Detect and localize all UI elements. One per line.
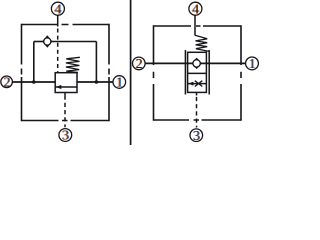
envelope right edge — [108, 24, 110, 122]
main wire port2 to valve — [12, 81, 55, 83]
check valve V1 ball — [44, 38, 51, 45]
svg-text:1: 1 — [116, 76, 123, 91]
envelope bottom edge (right) — [154, 119, 242, 121]
check valve V1 diamond — [43, 36, 52, 46]
drain stub wire (right) — [196, 92, 198, 95]
junction dot B — [95, 80, 99, 84]
port 2 circle (right) — [133, 57, 146, 70]
port 4 wire down to spring — [194, 15, 196, 35]
port 1 circle (left) — [113, 76, 126, 89]
relief flow path — [55, 86, 77, 88]
main wire diamond to port1 (right) — [201, 62, 246, 64]
relief flow arrowhead — [56, 85, 61, 89]
relief spring — [66, 57, 80, 72]
port 3 circle (right) — [190, 129, 203, 142]
svg-text:2: 2 — [136, 57, 143, 72]
main wire port2 to diamond (right) — [145, 62, 192, 64]
right cage rail — [208, 50, 210, 95]
main wire valve to port1 — [77, 81, 113, 83]
bypass riser left wire — [33, 42, 35, 83]
envelope right edge (right) — [240, 25, 242, 121]
envelope bottom edge — [22, 120, 110, 122]
bottom cell flow line — [188, 83, 207, 85]
port 3 circle (left) — [59, 129, 72, 142]
svg-text:3: 3 — [193, 129, 200, 144]
svg-text:4: 4 — [55, 2, 62, 17]
svg-text:3: 3 — [62, 129, 69, 144]
pilot line port4 to valve (dashed) — [57, 29, 59, 73]
divider line — [130, 0, 132, 145]
bypass top wire right — [52, 41, 97, 43]
port 1 circle (right) — [246, 57, 259, 70]
valve body (right) — [188, 52, 207, 92]
port 2 circle (left) — [1, 76, 13, 88]
left cage rail — [184, 50, 186, 95]
port 4 circle (left) — [51, 2, 64, 15]
envelope left edge (right) — [153, 25, 155, 121]
relief valve body (left) — [55, 73, 77, 93]
check ball (right) — [193, 60, 200, 67]
restrictor cross — [195, 81, 203, 87]
bypass top wire left — [34, 41, 43, 43]
envelope left edge — [21, 24, 23, 122]
drain pilot line to port3 (dashed) — [64, 96, 66, 128]
bypass riser right wire — [95, 42, 97, 83]
port 4 circle (right) — [189, 2, 202, 15]
check diamond (right) — [192, 59, 201, 69]
envelope top edge (right valve) — [154, 25, 242, 27]
drain stub wire (left) — [64, 93, 66, 96]
spring (right valve) — [195, 35, 209, 51]
port 4 stub wire — [57, 15, 59, 27]
envelope top edge (left valve) — [22, 24, 110, 26]
cell divider line — [188, 72, 207, 74]
svg-text:4: 4 — [193, 2, 200, 17]
svg-text:1: 1 — [249, 57, 256, 72]
svg-text:2: 2 — [4, 75, 11, 90]
junction dot A — [32, 80, 36, 84]
bottom cell arrowhead — [188, 82, 193, 86]
drain pilot to port3 (dashed, right) — [196, 97, 198, 128]
